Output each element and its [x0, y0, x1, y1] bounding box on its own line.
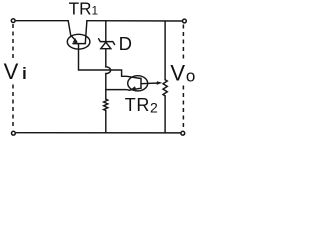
svg-text:TR1: TR1 [69, 0, 98, 18]
svg-text:D: D [119, 33, 132, 54]
svg-text:Vo: Vo [170, 60, 195, 85]
svg-text:TR2: TR2 [125, 95, 159, 116]
svg-text:Vi: Vi [4, 59, 27, 84]
